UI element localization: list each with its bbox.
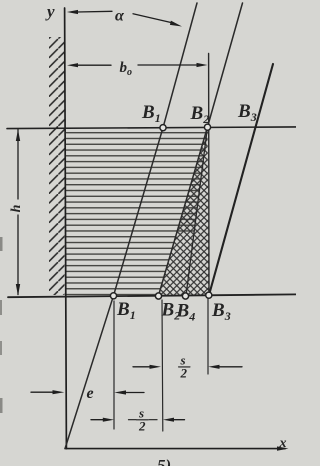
shaded area: horizontal hatching [66, 130, 209, 296]
b0 dimension right arrow [138, 64, 197, 66]
svg-text:x: x [279, 436, 287, 451]
b0 dimension left arrow [67, 63, 78, 67]
x-axis arrowhead [277, 446, 289, 450]
wall hatching [49, 37, 65, 295]
extension line below B3 foot [207, 299, 209, 374]
h arrow down [16, 284, 20, 296]
scan edge smudges [0, 237, 3, 251]
lower s/2 left arrow [91, 419, 104, 421]
line A (origin through B1) [65, 3, 197, 448]
svg-text:5): 5) [157, 456, 171, 466]
upper s/2 right arrow [208, 365, 219, 369]
crosshatched triangle [159, 128, 210, 296]
internal line B2top to B4 [186, 127, 208, 296]
right vertical edge b0 [208, 54, 210, 296]
svg-text:e: e [87, 385, 94, 402]
lower s/2 inner dashes [129, 419, 137, 421]
svg-text:y: y [45, 2, 55, 21]
e dimension left arrow [31, 391, 53, 393]
svg-text:α: α [115, 8, 125, 25]
svg-text:2: 2 [138, 419, 146, 434]
h dimension line [17, 130, 19, 200]
bottom boundary line [8, 294, 296, 297]
alpha leader arrow right [133, 14, 172, 23]
node B1 top [160, 125, 166, 131]
node B1 bottom [110, 293, 116, 299]
e dimension right arrow [114, 390, 126, 394]
node B2 top [204, 124, 210, 130]
node B2 bottom [155, 293, 161, 299]
x-axis [65, 448, 285, 450]
svg-text:2: 2 [180, 366, 188, 381]
line B (through B2) [159, 3, 243, 296]
lower s/2 right arrow [163, 418, 174, 422]
h arrow up [16, 129, 20, 141]
extension line below B2 foot [161, 300, 164, 431]
upper s/2 left arrow [133, 366, 151, 368]
node B4 bottom [182, 293, 188, 299]
svg-text:h: h [9, 204, 24, 212]
alpha leader arrow left [67, 10, 78, 14]
extension line below B1 foot [113, 301, 115, 429]
top boundary line [7, 127, 296, 129]
node B3 bottom [206, 292, 212, 298]
y-axis [65, 8, 67, 449]
line C (through B3) [209, 64, 273, 295]
